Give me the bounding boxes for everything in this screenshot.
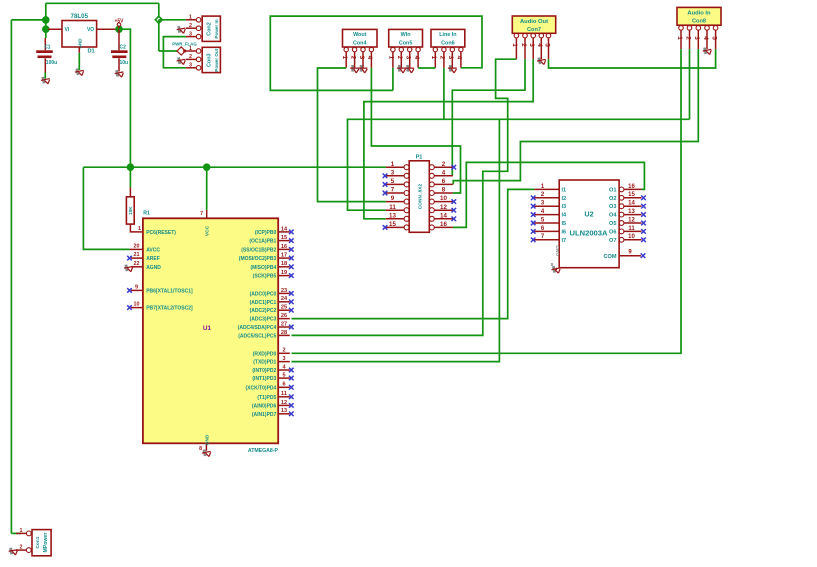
connector Con4 Wout: [341, 29, 377, 67]
svg-text:Wout: Wout: [353, 32, 367, 38]
svg-text:(XCK/T0)PD4: (XCK/T0)PD4: [245, 385, 276, 391]
U2 pin 8 GND: [551, 245, 561, 270]
svg-text:PB6[XTAL1/TOSC1]: PB6[XTAL1/TOSC1]: [146, 288, 193, 294]
svg-text:Power Out: Power Out: [214, 48, 219, 71]
svg-text:1: 1: [430, 56, 437, 60]
svg-text:22: 22: [134, 261, 140, 267]
svg-text:5: 5: [282, 373, 285, 379]
svg-text:4: 4: [536, 43, 543, 47]
svg-text:16: 16: [628, 184, 635, 190]
svg-text:O5: O5: [609, 221, 616, 227]
MCU pin 20 AVCC: [130, 243, 161, 253]
IC U2 ULN2003A: [559, 180, 619, 268]
svg-text:(ADC2)PC2: (ADC2)PC2: [250, 308, 277, 314]
svg-text:ULN2003A: ULN2003A: [570, 228, 608, 237]
svg-text:10K: 10K: [128, 206, 133, 215]
P1 pin 9: [386, 195, 409, 204]
MCU pin 19 (SCK)PB5: [253, 270, 294, 280]
svg-text:(ADC0)PC0: (ADC0)PC0: [250, 291, 277, 297]
MCU pin 17 (MOSI/OC2)PB3: [239, 253, 294, 263]
ground at Con8 pin4: [702, 46, 712, 56]
P1 pin 1: [386, 161, 409, 170]
svg-text:3: 3: [405, 56, 412, 60]
MCU pin 5 (INT1)PD3: [252, 373, 293, 383]
svg-text:19: 19: [281, 270, 287, 276]
svg-text:Con2: Con2: [207, 22, 213, 35]
MCU pin 18 (MISO)PB4: [250, 261, 293, 271]
svg-text:O2: O2: [609, 196, 616, 202]
svg-text:4: 4: [456, 56, 463, 60]
MCU pin 15 (OC1A)PB1: [249, 235, 293, 245]
ground at Con1 pin2: [8, 547, 18, 556]
svg-text:17: 17: [281, 253, 287, 259]
wire: [83, 167, 129, 249]
U2 pin 1 I1: [534, 184, 566, 194]
MCU pin 2 (RXD)PD0: [253, 348, 290, 358]
svg-text:Audio In: Audio In: [687, 10, 711, 16]
wire to PWR_FLAG: [159, 50, 177, 52]
U2 pin 7 I7: [531, 234, 566, 244]
U2 pin 16 O1: [609, 184, 641, 194]
svg-text:Con7: Con7: [527, 27, 541, 33]
wire: [318, 68, 386, 202]
MCU pin 8 GND: [199, 434, 210, 452]
ground below U2: [551, 265, 561, 275]
connector Con1 MPower: [16, 528, 51, 556]
MCU pin 6 (XCK/T0)PD4: [245, 382, 293, 392]
ground below C1: [40, 73, 50, 86]
svg-text:4: 4: [702, 36, 709, 40]
connector P1 CONN_8X2: [409, 155, 429, 233]
svg-text:10: 10: [440, 195, 447, 202]
P1 pin 11: [386, 204, 409, 213]
connector Con7 Audio Out: [511, 16, 556, 59]
MCU pin 14 (ICP)PB0: [255, 226, 294, 236]
svg-text:78L05: 78L05: [71, 13, 89, 20]
svg-text:7: 7: [391, 187, 395, 194]
svg-text:1: 1: [676, 36, 683, 40]
svg-text:PWR_FLAG: PWR_FLAG: [172, 42, 197, 47]
MCU pin 11 (T1)PD5: [257, 391, 293, 401]
MCU pin 28 (ADC5/SCL)PC5: [238, 330, 290, 340]
svg-text:5: 5: [543, 43, 550, 47]
MCU pin 7 VCC: [200, 167, 210, 236]
ground at MCU AGND: [123, 263, 133, 272]
svg-text:Con6: Con6: [441, 41, 454, 47]
MCU pin 25 (ADC2)PC2: [250, 305, 294, 315]
connector Con6 Line In: [430, 29, 465, 67]
regulator D1 78L05: [48, 13, 119, 55]
junction rail VCC: [203, 163, 211, 171]
svg-text:2: 2: [189, 23, 192, 29]
wire to Con1 pin1: [11, 532, 21, 534]
svg-text:4: 4: [442, 169, 446, 176]
svg-text:(AIN0)PD6: (AIN0)PD6: [252, 403, 277, 409]
svg-text:O4: O4: [609, 213, 617, 219]
U2 pin 14 O3: [609, 201, 646, 211]
wire: [453, 162, 645, 227]
wire: [270, 16, 482, 90]
svg-text:11: 11: [389, 204, 396, 211]
svg-text:1: 1: [20, 528, 23, 534]
svg-text:1: 1: [388, 56, 395, 60]
svg-text:12: 12: [628, 217, 635, 223]
svg-text:1: 1: [189, 46, 192, 52]
MCU pin 1 PC6(RESET): [137, 226, 177, 236]
wire diamond to Con2 pin1: [159, 19, 186, 21]
svg-text:U1: U1: [203, 325, 212, 332]
svg-text:I2: I2: [562, 196, 567, 202]
P1 pin 12: [429, 204, 456, 213]
capacitor C2: [111, 29, 128, 71]
connector Con2 Power In: [186, 15, 221, 42]
svg-text:2: 2: [189, 54, 192, 60]
connector Con5 WIn: [388, 29, 423, 67]
svg-text:Audio Out: Audio Out: [520, 19, 548, 25]
svg-text:9: 9: [628, 250, 632, 256]
connector Con8 Audio In: [676, 7, 721, 49]
svg-text:PC6(RESET): PC6(RESET): [146, 230, 176, 236]
svg-text:(OC1A)PB1: (OC1A)PB1: [249, 239, 276, 245]
wire: [163, 37, 186, 68]
ground below MCU: [201, 448, 211, 458]
P1 pin 6: [429, 178, 453, 187]
svg-text:(T1)PD5: (T1)PD5: [257, 395, 276, 401]
MCU pin 10 PB7: [127, 302, 193, 312]
ground at Con3 pin2: [176, 56, 186, 65]
svg-text:2: 2: [684, 36, 691, 40]
U2 pin 4 I4: [531, 209, 567, 219]
svg-text:24: 24: [281, 296, 288, 302]
svg-text:(ADC3)PC3: (ADC3)PC3: [250, 317, 277, 323]
svg-text:11: 11: [628, 226, 635, 232]
wire: [158, 20, 160, 24]
U2 pin 11 O6: [609, 226, 646, 236]
U2 pin 13 O4: [609, 209, 646, 219]
svg-text:16: 16: [281, 244, 287, 250]
svg-text:3: 3: [189, 63, 192, 69]
svg-text:15: 15: [628, 192, 635, 198]
svg-text:PB7[XTAL2/TOSC2]: PB7[XTAL2/TOSC2]: [146, 306, 193, 312]
wire top rail from C1 node to Con2 branch: [46, 3, 159, 29]
svg-text:MPower: MPower: [43, 533, 49, 553]
ground below D1: [74, 53, 84, 77]
P1 pin 13: [386, 212, 409, 221]
svg-text:12: 12: [440, 204, 447, 211]
MCU pin 12 (AIN0)PD6: [252, 400, 294, 410]
wire long left vertical to Con1: [10, 20, 12, 534]
svg-text:VI: VI: [65, 27, 70, 33]
svg-text:+5V: +5V: [114, 19, 124, 25]
svg-text:Con4: Con4: [353, 41, 366, 47]
svg-text:15: 15: [389, 221, 396, 228]
P1 pin 8: [429, 187, 453, 196]
svg-text:13: 13: [389, 212, 396, 219]
P1 pin 10: [429, 195, 456, 204]
MCU pin 21 AREF: [127, 252, 160, 262]
svg-text:3: 3: [358, 56, 365, 60]
svg-text:1: 1: [341, 56, 348, 60]
U2 pin 3 I3: [531, 201, 566, 211]
svg-text:GND: GND: [204, 434, 210, 445]
svg-text:ATMEGA8-P: ATMEGA8-P: [248, 448, 279, 454]
MCU pin 4 (INT0)PD2: [252, 364, 293, 374]
svg-text:1: 1: [391, 161, 395, 168]
svg-text:27: 27: [281, 321, 287, 327]
svg-text:1: 1: [138, 226, 141, 232]
wire: [292, 189, 535, 318]
svg-text:25: 25: [281, 305, 287, 311]
svg-text:3: 3: [447, 56, 454, 60]
svg-text:28: 28: [281, 330, 287, 336]
ground at Con5 pin2: [397, 65, 406, 73]
svg-text:Con5: Con5: [399, 41, 412, 47]
svg-text:I5: I5: [562, 221, 567, 227]
MCU pin 22 AGND: [131, 261, 161, 271]
svg-text:P1: P1: [416, 155, 423, 161]
svg-text:O1: O1: [609, 187, 616, 193]
svg-text:O3: O3: [609, 204, 616, 210]
ground at Con4 pin2: [350, 65, 359, 73]
svg-text:6: 6: [282, 382, 285, 388]
svg-text:(SCK)PB5: (SCK)PB5: [253, 274, 277, 280]
wire: [453, 49, 698, 184]
svg-text:10: 10: [134, 302, 140, 308]
junction C1 node upper: [42, 16, 50, 24]
svg-text:(INT0)PD2: (INT0)PD2: [252, 368, 276, 374]
svg-text:(ADC5/SCL)PC5: (ADC5/SCL)PC5: [238, 333, 276, 339]
svg-text:8: 8: [199, 446, 202, 452]
U2 pin 2 I2: [531, 192, 566, 202]
U2 pin 6 I6: [531, 226, 566, 236]
svg-text:6: 6: [442, 178, 446, 185]
wire: [689, 49, 691, 119]
svg-text:26: 26: [281, 313, 287, 319]
ground at Con6 pin3: [448, 65, 457, 73]
wire: [292, 59, 517, 335]
capacitor C1: [36, 29, 57, 72]
svg-text:(MISO)PB4: (MISO)PB4: [250, 265, 276, 271]
svg-text:COM: COM: [603, 254, 616, 260]
svg-text:11: 11: [281, 391, 287, 397]
svg-text:(RXD)PD0: (RXD)PD0: [253, 351, 277, 357]
svg-text:Con1: Con1: [35, 536, 41, 548]
+5V power symbol: [114, 19, 124, 30]
svg-text:2: 2: [282, 348, 285, 354]
svg-text:C2: C2: [120, 44, 127, 50]
svg-text:AREF: AREF: [146, 256, 160, 262]
svg-text:20: 20: [134, 243, 140, 249]
U2 pin 5 I5: [531, 217, 566, 227]
svg-text:I7: I7: [562, 238, 567, 244]
svg-text:100u: 100u: [46, 60, 57, 66]
svg-text:2: 2: [20, 545, 23, 551]
U2 pin 12 O5: [609, 217, 646, 227]
svg-text:4: 4: [366, 56, 373, 60]
svg-text:2: 2: [442, 161, 446, 168]
P1 pin 7: [383, 187, 409, 196]
wire +5V down to rail: [119, 29, 130, 167]
ground at Con5 pin3: [405, 65, 414, 73]
MCU pin 3 (TXD)PD1: [253, 356, 290, 366]
svg-text:8: 8: [442, 187, 446, 194]
wire: [452, 59, 525, 176]
svg-text:WIn: WIn: [401, 32, 411, 38]
svg-text:10: 10: [628, 234, 635, 240]
P1 pin 3: [383, 169, 409, 178]
svg-text:CONN_8X2: CONN_8X2: [417, 184, 423, 210]
U2 pin 15 O2: [609, 192, 646, 202]
wire: [292, 49, 682, 353]
MCU pin 16 (SS/OC1B)PB2: [241, 244, 293, 254]
svg-text:O6: O6: [609, 229, 616, 235]
svg-text:7: 7: [200, 211, 203, 217]
P1 pin 14: [429, 212, 456, 221]
svg-text:3: 3: [189, 31, 192, 37]
wire: [443, 68, 445, 120]
U2 pin 10 O7: [609, 234, 646, 244]
wire: [83, 166, 385, 168]
svg-text:Con8: Con8: [692, 19, 706, 25]
MCU pin 9 PB6: [127, 284, 193, 294]
svg-text:(ADC1)PC1: (ADC1)PC1: [250, 300, 277, 306]
ground below C2: [114, 69, 124, 79]
svg-text:C1: C1: [44, 44, 51, 50]
wire: [371, 68, 460, 193]
svg-text:Line In: Line In: [439, 32, 456, 38]
power flag PWR_FLAG: [172, 42, 197, 55]
ground at Con4 pin3: [359, 65, 368, 73]
P1 pin 5: [383, 178, 409, 187]
svg-text:Power In: Power In: [214, 19, 219, 38]
junction diamond Con2 branch: [155, 16, 162, 23]
junction VO node: [115, 25, 123, 33]
wire: [348, 119, 690, 210]
junction C1 node lower: [42, 25, 50, 33]
MCU pin 26 (ADC3)PC3: [250, 313, 290, 323]
svg-text:14: 14: [281, 226, 288, 232]
svg-text:R1: R1: [143, 210, 150, 216]
svg-text:1: 1: [189, 15, 192, 21]
P1 pin 16: [429, 221, 453, 230]
svg-text:18: 18: [281, 261, 287, 267]
svg-text:3: 3: [693, 36, 700, 40]
svg-text:16: 16: [440, 221, 447, 228]
svg-text:(MOSI/OC2)PB3: (MOSI/OC2)PB3: [239, 256, 277, 262]
P1 pin 15: [383, 221, 409, 230]
svg-text:13: 13: [281, 408, 287, 414]
wire: [292, 119, 500, 361]
svg-text:I3: I3: [562, 204, 567, 210]
svg-text:3: 3: [282, 356, 285, 362]
svg-text:(ICP)PB0: (ICP)PB0: [255, 230, 277, 236]
MCU pin 23 (ADC0)PC0: [250, 288, 294, 298]
svg-text:GND: GND: [555, 245, 561, 256]
svg-text:VCC: VCC: [205, 225, 211, 236]
ground at Con7 pin4: [536, 56, 546, 66]
svg-text:10u: 10u: [120, 60, 129, 66]
svg-text:13: 13: [628, 209, 635, 215]
MCU pin 27 (ADC4/SDA)PC4: [238, 321, 294, 331]
U2 pin 9 COM: [603, 250, 645, 260]
svg-text:AGND: AGND: [146, 265, 161, 271]
wire: [206, 167, 208, 210]
svg-text:2: 2: [396, 56, 403, 60]
svg-text:VO: VO: [87, 27, 94, 33]
wire: [549, 49, 716, 68]
svg-text:12: 12: [281, 400, 287, 406]
svg-text:(SS/OC1B)PB2: (SS/OC1B)PB2: [241, 247, 276, 253]
svg-text:(AIN1)PD7: (AIN1)PD7: [252, 412, 277, 418]
svg-text:2: 2: [520, 43, 527, 47]
junction rail R1: [127, 163, 135, 171]
wire: [364, 59, 533, 219]
svg-text:5: 5: [710, 36, 717, 40]
svg-text:3: 3: [391, 169, 395, 176]
svg-text:4: 4: [413, 56, 420, 60]
svg-text:(INT1)PD3: (INT1)PD3: [252, 376, 276, 382]
svg-text:GND: GND: [78, 38, 83, 49]
resistor R1 10K: [126, 167, 150, 232]
wire: [392, 68, 394, 91]
svg-text:O7: O7: [609, 238, 616, 244]
MCU pin 24 (ADC1)PC1: [250, 296, 294, 306]
wire down to Con3 pin1: [158, 20, 160, 51]
svg-text:D1: D1: [88, 49, 95, 55]
svg-text:(TXD)PD1: (TXD)PD1: [253, 360, 276, 366]
svg-text:14: 14: [628, 201, 635, 207]
connector Con3 Power Out: [186, 46, 221, 73]
IC U1 ATMEGA8-P body: [143, 218, 279, 453]
svg-text:I1: I1: [562, 187, 567, 193]
svg-text:1: 1: [511, 43, 518, 47]
wire: [418, 67, 435, 69]
wire left branch to Con1: [11, 19, 45, 21]
svg-text:AVCC: AVCC: [146, 247, 160, 253]
svg-text:5: 5: [391, 178, 395, 185]
P1 pin 2: [429, 161, 456, 170]
svg-text:I6: I6: [562, 229, 567, 235]
MCU pin 13 (AIN1)PD7: [252, 408, 294, 418]
ground at Con2 pin2: [176, 25, 186, 34]
svg-text:9: 9: [391, 195, 395, 202]
svg-text:Con3: Con3: [207, 53, 213, 66]
wire: [434, 67, 436, 69]
svg-text:15: 15: [281, 235, 287, 241]
svg-text:14: 14: [440, 212, 447, 219]
svg-text:21: 21: [134, 252, 140, 258]
svg-text:U2: U2: [584, 210, 593, 219]
svg-text:9: 9: [135, 284, 138, 290]
svg-text:2: 2: [349, 56, 356, 60]
P1 pin 4: [429, 169, 453, 178]
svg-text:2: 2: [439, 56, 446, 60]
svg-text:(ADC4/SDA)PC4: (ADC4/SDA)PC4: [238, 325, 277, 331]
svg-text:3: 3: [528, 43, 535, 47]
svg-text:23: 23: [281, 288, 287, 294]
